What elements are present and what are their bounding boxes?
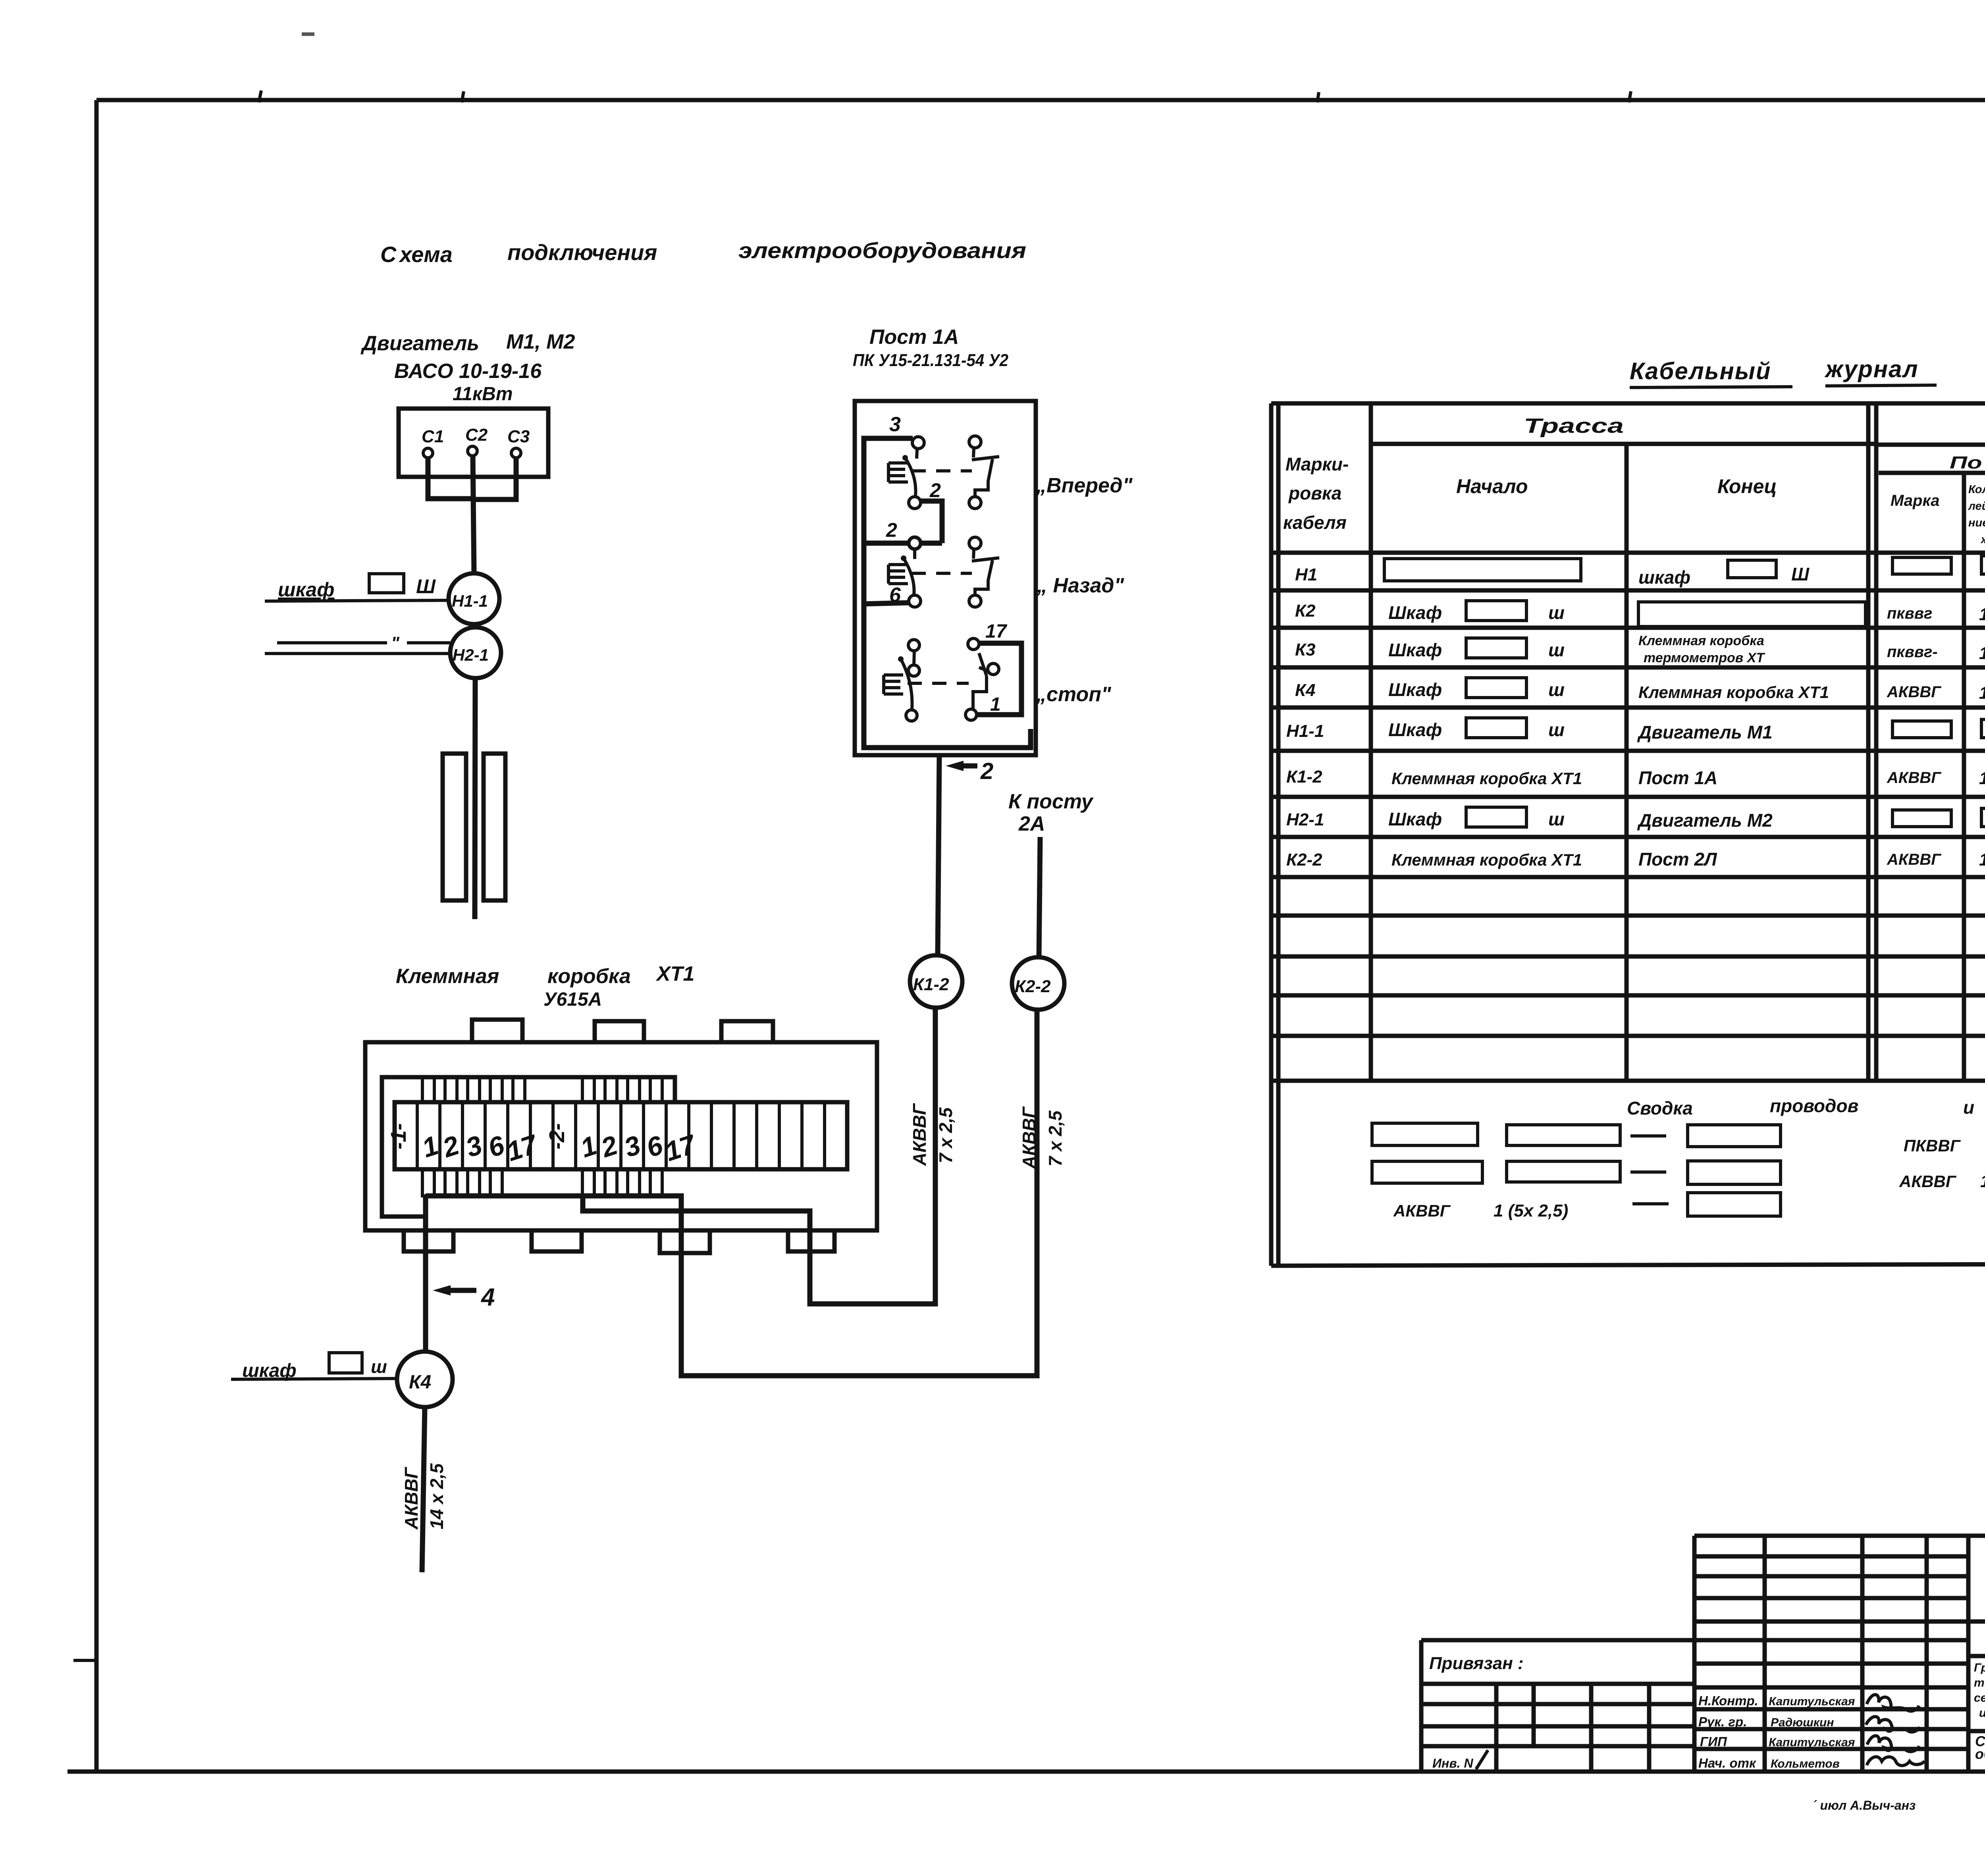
wire mark 2 with arrow [946, 758, 993, 784]
svg-text:Н1-1: Н1-1 [1286, 721, 1324, 741]
svg-text:´ июл А.Выч-анз: ´ июл А.Выч-анз [1812, 1798, 1916, 1812]
svg-text:и: и [1963, 1097, 1974, 1118]
svg-text:11кВт: 11кВт [453, 384, 513, 405]
svg-text:ровка: ровка [1288, 483, 1341, 503]
svg-text:Шкаф: Шкаф [1388, 640, 1442, 660]
svg-text:-1-: -1- [387, 1123, 410, 1149]
row K4 [1388, 675, 1985, 703]
dashed link стоп [908, 682, 969, 685]
svg-text:К3: К3 [1295, 640, 1316, 659]
svg-text:1 (14х 2,5): 1 (14х 2,5) [1980, 1172, 1985, 1191]
terminal box inner margin line [382, 1077, 675, 1217]
node H1-1 [449, 573, 499, 624]
svg-text:К2: К2 [1295, 601, 1316, 621]
svg-text:К2-2: К2-2 [1015, 977, 1051, 996]
svg-text:1: 1 [990, 694, 1001, 715]
tick marks on top border [259, 13, 1985, 102]
switch Назад left contact [901, 549, 921, 607]
sheet title [1975, 1733, 1985, 1773]
actuator symbol Вперед [888, 463, 908, 482]
summary row 3 [1393, 1193, 1781, 1220]
svg-text:2А: 2А [1018, 812, 1045, 835]
summary section Сводка проводов и кабелей [1627, 1095, 1985, 1118]
link to pin2 wire [921, 501, 942, 543]
conduit rectangle left [443, 754, 466, 900]
svg-text:ш: ш [1548, 679, 1565, 700]
terminal labels group 1 [387, 1123, 542, 1167]
terminal labels group 2 [545, 1123, 700, 1167]
terminal box bottom tab 1 [404, 1230, 453, 1251]
svg-text:лей, число и сече-: лей, число и сече- [1968, 500, 1985, 513]
svg-text:жение: жение [1980, 533, 1985, 546]
attachment box Привязан [1421, 1640, 1694, 1772]
svg-text:К1-2: К1-2 [913, 975, 949, 994]
switch Вперед left contact [902, 437, 924, 509]
svg-text:подключения: подключения [507, 240, 657, 265]
svg-text:4: 4 [480, 1284, 495, 1311]
svg-text:пкввг: пкввг [1887, 605, 1932, 622]
svg-text:Клеммная коробка ХТ1: Клеммная коробка ХТ1 [1391, 769, 1582, 788]
svg-text:2: 2 [886, 519, 897, 541]
row K3 [1388, 633, 1985, 665]
cabinet label шкаф -> K4 [231, 1353, 397, 1381]
wire from C2 down to H1-1 [473, 456, 474, 573]
svg-text:Кабельный: Кабельный [1630, 358, 1771, 384]
table column 1 cable ids [1286, 565, 1324, 870]
svg-text:У615А: У615А [543, 989, 602, 1010]
svg-text:Пост 1А: Пост 1А [869, 326, 959, 349]
dashed link Назад [912, 572, 972, 575]
wire bus group1 to K2-2 cable [426, 1010, 1037, 1376]
svg-text:1(14х2,5): 1(14х2,5) [1979, 683, 1985, 703]
svg-text:Схема: Схема [380, 242, 453, 267]
pin 6 wire [864, 603, 909, 604]
terminal box bottom tab 3 [660, 1230, 710, 1253]
svg-text:1 (7х2,5): 1 (7х2,5) [1979, 769, 1985, 788]
faint reproduction marks [1812, 1795, 1985, 1826]
inner margin line of Пост box [864, 438, 1031, 748]
push-button station Пост 1А box [855, 401, 1036, 755]
svg-text:„Вперед": „Вперед" [1036, 474, 1133, 497]
actuator symbol Назад [888, 565, 908, 584]
svg-text:шкаф: шкаф [278, 578, 334, 601]
svg-text:ВАСО 10-19-16: ВАСО 10-19-16 [394, 360, 542, 383]
svg-text:оборудования. Кабельный: оборудования. Кабельный [1975, 1746, 1985, 1762]
svg-text:Марка: Марка [1891, 492, 1940, 509]
svg-text:К2-2: К2-2 [1286, 850, 1322, 870]
summary row 1 [1372, 1123, 1985, 1155]
tick mark on left border [73, 1659, 97, 1662]
svg-text:Пост 2Л: Пост 2Л [1638, 849, 1717, 870]
svg-text:3: 3 [889, 413, 901, 436]
wire K2-2 cable upper [1039, 837, 1040, 957]
wire from H2-1 down [475, 678, 475, 919]
svg-text:Н1: Н1 [1295, 565, 1317, 584]
top stubs group 1 [422, 1077, 525, 1102]
svg-text:ш: ш [1548, 719, 1565, 740]
svg-text:Н.Контр.: Н.Контр. [1698, 1693, 1758, 1708]
wire bus group2 to K1-2 cable [583, 1008, 935, 1304]
svg-text:Клеммная коробка ХТ1: Клеммная коробка ХТ1 [1638, 683, 1829, 702]
svg-text:Двигатель М2: Двигатель М2 [1637, 810, 1773, 831]
terminal box bottom tab 2 [532, 1230, 582, 1251]
svg-text:2: 2 [980, 758, 993, 784]
svg-text:Н2-1: Н2-1 [453, 646, 489, 664]
svg-text:Радюшкин: Радюшкин [1771, 1716, 1834, 1729]
svg-text:К1-2: К1-2 [1286, 767, 1322, 787]
svg-text:пкввг-: пкввг- [1887, 643, 1938, 661]
svg-text:Капитульская: Капитульская [1769, 1695, 1855, 1708]
terminal strip [395, 1102, 847, 1169]
node H2-1 [450, 627, 501, 678]
svg-text:К4: К4 [1295, 681, 1316, 700]
svg-text:Клеммная коробка: Клеммная коробка [1638, 633, 1764, 648]
svg-text:кабеля: кабеля [1283, 512, 1347, 533]
svg-text:электрооборудования: электрооборудования [738, 238, 1026, 263]
svg-text:Н2-1: Н2-1 [1286, 810, 1324, 829]
wire from Пост box down [938, 755, 939, 955]
svg-text:С3: С3 [507, 427, 530, 446]
svg-text:секциями площадью24м² с каркас: секциями площадью24м² с каркасом [1974, 1691, 1985, 1704]
terminal box top tab 3 [721, 1021, 773, 1042]
svg-text:ПК У15-21.131-54 У2: ПК У15-21.131-54 У2 [853, 351, 1008, 370]
switch стоп left contact [898, 640, 919, 721]
svg-text:ние жил, напря-: ние жил, напря- [1968, 517, 1985, 529]
svg-text:термометров ХТ: термометров ХТ [1644, 650, 1765, 665]
svg-text:Шкаф: Шкаф [1388, 809, 1442, 829]
row K2-2 [1391, 849, 1985, 871]
svg-text:Клеммная: Клеммная [396, 965, 499, 988]
svg-text:ш: ш [1548, 809, 1565, 829]
cable journal table grid [1271, 403, 1985, 1266]
svg-text:ш: ш [371, 1356, 387, 1377]
svg-text:К4: К4 [409, 1372, 431, 1393]
svg-text:1(7х2,5): 1(7х2,5) [1979, 644, 1985, 663]
svg-text:Привязан :: Привязан : [1429, 1654, 1524, 1673]
svg-text:Рук. гр.: Рук. гр. [1698, 1714, 1747, 1729]
terminal box bottom tab 4 [788, 1230, 834, 1251]
svg-text:Шкаф: Шкаф [1388, 602, 1442, 623]
switch стоп right contact with bracket [966, 638, 1021, 720]
table headers [1283, 415, 1985, 546]
svg-text:шкаф: шкаф [1638, 567, 1690, 588]
title block main box [1968, 1536, 1985, 1772]
switch Вперед right contact [969, 436, 999, 509]
switch Назад right contact [969, 537, 999, 607]
svg-text:С2: С2 [465, 425, 488, 445]
svg-text:ш: ш [1548, 640, 1565, 660]
row H2-1 [1388, 807, 1985, 831]
svg-text:17: 17 [985, 621, 1008, 642]
row H1 [1384, 556, 1985, 588]
svg-text:Шкаф: Шкаф [1388, 719, 1442, 740]
dashed link Вперед [912, 469, 972, 472]
svg-text:журнал: журнал [1824, 356, 1919, 382]
row K2 [1388, 596, 1985, 627]
svg-text:С1: С1 [422, 427, 444, 446]
svg-text:проводов: проводов [1770, 1095, 1858, 1116]
svg-text:Инв. N: Инв. N [1432, 1756, 1473, 1770]
svg-text:Кольметов: Кольметов [1771, 1757, 1840, 1770]
svg-text:1 (5х 2,5): 1 (5х 2,5) [1494, 1201, 1568, 1220]
svg-text:Количества кабе-: Количества кабе- [1968, 483, 1985, 496]
svg-text:По проекту: По проекту [1950, 453, 1985, 472]
node K2-2 [1012, 957, 1064, 1010]
svg-text:2: 2 [929, 479, 941, 501]
svg-text:": " [391, 633, 400, 653]
svg-text:ХТ1: ХТ1 [655, 962, 694, 985]
wire from C3 [475, 458, 516, 499]
terminal box top tab 1 [472, 1020, 522, 1042]
svg-text:К посту: К посту [1008, 790, 1094, 813]
row H1-1 [1388, 718, 1985, 742]
svg-text:Двигатель: Двигатель [360, 332, 479, 355]
svg-text:ПКВВГ: ПКВВГ [1904, 1136, 1961, 1155]
svg-text:коробка: коробка [547, 965, 631, 988]
svg-text:„стоп": „стоп" [1036, 683, 1112, 706]
top stubs group 2 [582, 1077, 662, 1102]
node K4 [397, 1352, 453, 1407]
svg-text:Сводка: Сводка [1627, 1098, 1693, 1118]
svg-text:тиляторами 3ВГ25 капельная с: тиляторами 3ВГ25 капельная с [1974, 1676, 1985, 1689]
svg-text:из железобетонных элементов: из железобетонных элементов [1979, 1706, 1985, 1720]
svg-text:Пост 1А: Пост 1А [1638, 767, 1717, 788]
object description [1974, 1661, 1985, 1720]
svg-text:АКВВГ: АКВВГ [1887, 851, 1942, 868]
svg-text:Шкаф: Шкаф [1388, 679, 1442, 700]
wire to K4 [423, 1196, 428, 1352]
terminal box top tab 2 [595, 1021, 644, 1042]
summary row 2 [1372, 1161, 1985, 1191]
label Инв N [1432, 1750, 1488, 1770]
row K1-2 [1391, 767, 1985, 790]
svg-text:Двигатель М1: Двигатель М1 [1637, 722, 1773, 742]
svg-text:Конец: Конец [1717, 475, 1777, 497]
svg-text:Нач. отк: Нач. отк [1698, 1756, 1757, 1770]
wire from C1 [428, 458, 472, 499]
svg-text:Клеммная коробка ХТ1: Клеммная коробка ХТ1 [1391, 850, 1582, 869]
svg-text:Н1-1: Н1-1 [452, 592, 488, 610]
terminal box XT1 outer case [365, 1042, 877, 1230]
svg-text:АКВВГ: АКВВГ [1887, 683, 1942, 701]
title block stamp table [1694, 1536, 1968, 1772]
svg-text:1(5х2,5): 1(5х2,5) [1979, 605, 1985, 624]
wire mark 4 with arrow [433, 1284, 495, 1311]
cable below K4 [422, 1407, 425, 1572]
svg-text:1 ( 7х 2,5): 1 ( 7х 2,5) [1979, 850, 1985, 870]
bottom stubs group 2 [582, 1169, 662, 1196]
junction node circle [909, 537, 921, 549]
svg-text:Трасса: Трасса [1524, 415, 1624, 438]
svg-text:Капитульская: Капитульская [1769, 1736, 1855, 1749]
svg-text:АКВВГ: АКВВГ [1393, 1201, 1451, 1220]
signature squiggles [1866, 1695, 1925, 1766]
bottom stubs group 1 [422, 1169, 502, 1196]
svg-text:Марки-: Марки- [1285, 454, 1349, 474]
svg-text:ш: ш [1548, 602, 1565, 623]
svg-text:ГИП: ГИП [1700, 1734, 1727, 1749]
stamp signatures rows [1698, 1693, 1855, 1770]
svg-text:Начало: Начало [1456, 475, 1528, 497]
svg-text:М1, М2: М1, М2 [506, 330, 575, 353]
svg-text:Ш: Ш [1791, 564, 1810, 584]
svg-text:АКВВГ: АКВВГ [1899, 1172, 1957, 1191]
svg-text:Градирня двухсекционная с вен: Градирня двухсекционная с вен- [1974, 1661, 1985, 1674]
svg-text:-2-: -2- [545, 1123, 569, 1149]
ditto line -> H2-1 [265, 633, 450, 654]
node K1-2 [910, 955, 962, 1008]
svg-text:АКВВГ: АКВВГ [1887, 769, 1942, 787]
motor M1/M2 terminal box [399, 409, 548, 477]
svg-text:Ш: Ш [416, 575, 436, 598]
pin 2 wire [864, 541, 942, 546]
svg-text:„ Назад": „ Назад" [1037, 574, 1125, 597]
actuator symbol стоп [884, 675, 903, 694]
cabinet label шкаф -> H1-1 [265, 574, 449, 601]
conduit rectangle right [484, 754, 505, 900]
